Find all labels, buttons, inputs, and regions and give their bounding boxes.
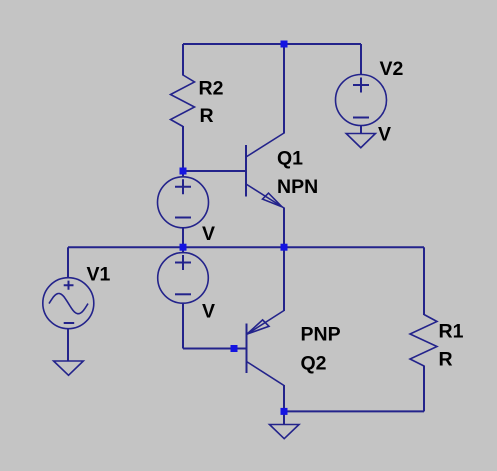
svg-text:R: R	[439, 349, 453, 371]
svg-text:Q1: Q1	[277, 148, 303, 170]
svg-text:V: V	[378, 124, 391, 146]
svg-text:Q2: Q2	[301, 353, 327, 375]
svg-text:R2: R2	[199, 78, 224, 100]
svg-text:PNP: PNP	[301, 324, 341, 346]
svg-text:R: R	[200, 105, 214, 127]
svg-text:R1: R1	[439, 321, 464, 343]
svg-text:V1: V1	[87, 264, 111, 286]
svg-text:V2: V2	[380, 58, 404, 80]
svg-text:V: V	[202, 301, 215, 323]
svg-text:V: V	[202, 223, 215, 245]
svg-text:NPN: NPN	[277, 176, 318, 198]
